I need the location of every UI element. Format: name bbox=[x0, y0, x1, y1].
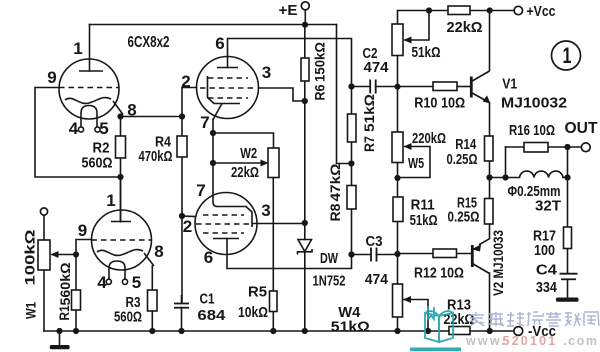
wire 51k pot bottom to C2 node bbox=[397, 56, 399, 87]
svg-text:DW: DW bbox=[320, 251, 338, 267]
wire mid tube pin7 cathode down to lower tube pin7 bbox=[212, 120, 214, 193]
wire top right rail bbox=[398, 10, 448, 12]
node C1 rail junction bbox=[178, 328, 184, 334]
tube V-left-top heater bbox=[81, 106, 97, 127]
wire R6 top lead bbox=[304, 25, 306, 58]
tube V-left-bottom cathode bbox=[97, 250, 143, 256]
wire 51k pot wiper up to rail bbox=[405, 11, 429, 41]
tube V-left-top triode envelope bbox=[59, 59, 119, 119]
tube V-mid-top cathode bbox=[208, 76, 241, 104]
svg-text:474: 474 bbox=[364, 60, 389, 76]
svg-text:6: 6 bbox=[215, 34, 224, 53]
tube V-left-top cathode bbox=[65, 98, 111, 104]
resistor R5 10k bbox=[270, 291, 278, 312]
node C3 right junction bbox=[394, 251, 400, 257]
page marker circled 1 bbox=[552, 41, 581, 70]
wire ground symbol stub bbox=[59, 331, 61, 345]
svg-text:22kΩ: 22kΩ bbox=[447, 19, 483, 36]
svg-text:R10 10Ω: R10 10Ω bbox=[414, 96, 465, 112]
tube V-left-bottom triode envelope bbox=[92, 210, 152, 270]
wire ground rail right section to -Vcc bbox=[470, 330, 514, 332]
svg-text:.com: .com bbox=[563, 334, 599, 348]
svg-text:OUT: OUT bbox=[565, 120, 598, 137]
resistor R14 0.25 ohm bbox=[485, 136, 494, 161]
ground symbol left bbox=[50, 345, 70, 349]
resistor R11 51k bbox=[393, 197, 403, 222]
watermark book logo bbox=[425, 306, 453, 342]
wire mid tube pin2 grid down to R4 bbox=[182, 88, 197, 137]
resistor R4 470k bbox=[177, 136, 187, 157]
svg-text:W5: W5 bbox=[408, 156, 424, 172]
svg-text:R16 10Ω: R16 10Ω bbox=[509, 123, 555, 139]
svg-text:32T: 32T bbox=[535, 199, 561, 215]
svg-text:520101: 520101 bbox=[503, 334, 558, 348]
svg-text:9: 9 bbox=[78, 221, 87, 240]
wire W1 bottom to ground rail bbox=[43, 270, 45, 331]
node +E junction bbox=[302, 22, 308, 28]
svg-text:684: 684 bbox=[197, 308, 225, 324]
resistor R16 10 ohm bbox=[524, 143, 548, 153]
node lower pentode plate junction bbox=[302, 220, 308, 226]
wire R14 bottom to output node bbox=[489, 161, 491, 178]
svg-text:R5: R5 bbox=[248, 285, 267, 301]
wire +E terminal lead bbox=[304, 10, 306, 26]
svg-text:0.25Ω: 0.25Ω bbox=[448, 210, 480, 226]
svg-text:3: 3 bbox=[262, 63, 271, 82]
ground symbol right C4 bbox=[556, 298, 579, 302]
svg-text:R6: R6 bbox=[312, 84, 328, 100]
svg-text:560kΩ: 560kΩ bbox=[57, 263, 73, 306]
wire C3 node down to W4 bbox=[397, 255, 399, 285]
resistor R8 47k bbox=[347, 186, 356, 210]
svg-text:470kΩ: 470kΩ bbox=[139, 149, 173, 165]
svg-text:R7: R7 bbox=[361, 136, 377, 152]
wire R8 leads bbox=[351, 209, 353, 255]
svg-text:MJ10032: MJ10032 bbox=[501, 96, 567, 112]
svg-text:2: 2 bbox=[181, 72, 190, 91]
capacitor C3 474 bbox=[371, 248, 377, 262]
wire SRPP node down to lower tube plate bbox=[120, 177, 122, 222]
watermark underline bar bbox=[410, 348, 461, 352]
wire cathode pin8 to R2 bbox=[120, 115, 122, 136]
node R16 branch junction bbox=[502, 174, 508, 180]
node W4 bottom rail junction bbox=[394, 328, 400, 334]
wire W2 top connection bbox=[213, 133, 274, 148]
resistor R15 0.25 ohm bbox=[485, 199, 494, 225]
wire DW zener bottom to rail bbox=[304, 252, 306, 331]
node V1 collector rail junction bbox=[487, 7, 493, 13]
svg-text:22kΩ: 22kΩ bbox=[231, 165, 259, 181]
tube V-left-top grid dashed bbox=[59, 87, 119, 89]
terminal +Vcc bbox=[514, 6, 522, 14]
wire coil right node column down to R17 bbox=[567, 147, 569, 227]
node C2 right junction bbox=[394, 84, 400, 90]
svg-text:0.25Ω: 0.25Ω bbox=[447, 152, 478, 168]
svg-text:474: 474 bbox=[365, 272, 388, 288]
svg-text:51kΩ: 51kΩ bbox=[412, 44, 441, 61]
tube V-mid-bottom grid1 dashed bbox=[203, 214, 244, 216]
wire lower-left tube plate bar lead bbox=[120, 177, 122, 222]
svg-text:+E: +E bbox=[279, 2, 298, 19]
tube V-mid-top plate bar bbox=[217, 67, 238, 69]
wire 220k bottom to R11 bbox=[397, 163, 399, 198]
node R4 top junction bbox=[179, 113, 185, 119]
tube V-mid-bottom grid2 dashed bbox=[196, 223, 250, 225]
tube V-left-top plate bar bbox=[79, 70, 103, 72]
wire V1 emitter to R14 bbox=[489, 103, 491, 136]
potentiometer 51k top body bbox=[392, 24, 403, 56]
svg-text:3: 3 bbox=[261, 201, 270, 220]
svg-text:W2: W2 bbox=[240, 146, 257, 162]
resistor R3 560 ohm bbox=[148, 290, 158, 311]
svg-text:51kΩ: 51kΩ bbox=[361, 94, 377, 132]
wire C1 bottom to ground rail bbox=[181, 308, 183, 332]
wire lower tube pin8 cathode to R3 bbox=[151, 266, 153, 290]
svg-text:560Ω: 560Ω bbox=[114, 310, 142, 326]
wire R4 bottom to lower grid node bbox=[181, 157, 183, 216]
wire plate lead left tube pin1 bbox=[89, 25, 91, 72]
svg-text:R12 10Ω: R12 10Ω bbox=[414, 266, 464, 282]
node W2 top junction bbox=[210, 130, 216, 136]
node R16 OUT junction bbox=[564, 144, 570, 150]
wire R17 to C4 bbox=[567, 249, 569, 274]
node output R14 junction bbox=[486, 174, 492, 180]
svg-text:1N752: 1N752 bbox=[313, 274, 346, 290]
wire W4 bottom to rail bbox=[397, 317, 399, 331]
svg-text:V2 MJ10033: V2 MJ10033 bbox=[490, 230, 506, 296]
svg-text:5: 5 bbox=[99, 119, 108, 138]
wire R7 leads bbox=[351, 142, 353, 164]
node 51k wiper rail junction bbox=[426, 7, 432, 13]
wire R12 line to V2 base bbox=[398, 253, 434, 255]
wire ground rail left section bbox=[44, 330, 449, 332]
svg-text:6: 6 bbox=[204, 248, 213, 267]
svg-text:+Vcc: +Vcc bbox=[527, 4, 556, 20]
node ground stub junction bbox=[56, 328, 62, 334]
svg-text:560Ω: 560Ω bbox=[82, 156, 113, 172]
resistor R7 51k bbox=[348, 114, 357, 142]
node V2 collector rail junction bbox=[487, 328, 493, 334]
arrow V1 emitter bbox=[483, 96, 491, 104]
resistor R13 22k on rail bbox=[449, 327, 470, 335]
wire 51k pot top lead bbox=[397, 11, 399, 25]
potentiometer W2 22k body bbox=[268, 148, 279, 178]
wire C2 left lead bbox=[352, 86, 371, 88]
wire lower tube pin2 grid stub bbox=[182, 215, 196, 218]
inductor coil 0.25mm 32T bbox=[520, 171, 564, 177]
node pin8 cathode junction bbox=[117, 113, 123, 119]
resistor R12 10 ohm bbox=[433, 249, 457, 258]
resistor R6 150k bbox=[301, 58, 309, 81]
svg-text:7: 7 bbox=[200, 113, 209, 132]
svg-text:1: 1 bbox=[106, 191, 115, 210]
tube V-left-top cathode slash to pin8 bbox=[113, 101, 123, 115]
node W5 bottom junction bbox=[394, 175, 400, 181]
svg-text:4: 4 bbox=[69, 119, 79, 138]
svg-text:150kΩ: 150kΩ bbox=[312, 42, 328, 82]
wire W2 wiper line bbox=[213, 162, 266, 164]
wire W4 wiper to rail bbox=[404, 300, 428, 332]
svg-text:51kΩ: 51kΩ bbox=[331, 320, 370, 336]
wire mid tube pin6 plate lead bbox=[227, 39, 229, 68]
tube V-mid-bottom pentode envelope bbox=[195, 193, 257, 255]
svg-text:V1: V1 bbox=[502, 77, 517, 93]
svg-text:8: 8 bbox=[154, 242, 163, 261]
tube V-left-bottom heater bbox=[109, 261, 125, 279]
tube V-mid-top cathode lead to pin7 bbox=[213, 104, 222, 120]
terminal W1 input bbox=[40, 208, 47, 215]
resistor 22k top rail bbox=[448, 6, 470, 15]
wire R15 bottom to V2 emitter bbox=[489, 224, 491, 239]
resistor R17 100 bbox=[564, 227, 572, 249]
tube V-left-bottom plate bar bbox=[111, 221, 131, 223]
arrow W5 wiper bbox=[404, 143, 412, 150]
wire R1 leads bbox=[75, 255, 77, 291]
wire R10 line from node to V1 base bbox=[398, 86, 434, 88]
wire C3 left lead bbox=[352, 254, 372, 256]
wire pin8 node to R4 top node bbox=[121, 116, 183, 118]
tube V-mid-top grid1 dashed bbox=[208, 77, 248, 79]
wire R16 right to OUT bbox=[548, 146, 581, 148]
svg-text:8: 8 bbox=[127, 101, 136, 120]
wire lower-left tube pin9 grid bbox=[76, 240, 92, 255]
wire C2 node to 220k pot bbox=[397, 87, 399, 133]
wire W5 wiper loop bbox=[398, 147, 431, 178]
wire second rail tube pin6 to C2 node bbox=[228, 39, 352, 87]
potentiometer W4 51k body bbox=[393, 284, 403, 317]
node W1 wiper R1 junction bbox=[73, 251, 79, 257]
node C3 left junction bbox=[348, 251, 354, 257]
resistor R2 560 ohm bbox=[116, 136, 126, 158]
node SRPP junction bbox=[117, 174, 123, 180]
wire output node to R15 top bbox=[489, 178, 491, 199]
svg-text:C3: C3 bbox=[366, 234, 383, 250]
arrow W4 wiper bbox=[403, 296, 411, 303]
wire DW zener top lead bbox=[304, 223, 306, 240]
wire R11 bottom to C3 node bbox=[397, 222, 399, 255]
wire pin9 grid left tube L-shape to SRPP node bbox=[35, 88, 121, 178]
wire R2 bottom to SRPP node bbox=[120, 158, 122, 177]
svg-text:R1: R1 bbox=[56, 305, 72, 320]
tube V-mid-top grid2 dashed bbox=[200, 87, 255, 89]
wire R6 bottom to plate node lower pentode bbox=[304, 81, 306, 223]
node DW rail junction bbox=[302, 328, 308, 334]
tube V-left-bottom grid dashed bbox=[92, 239, 153, 241]
wire lower pentode pin6 screen L to C3 node bbox=[227, 239, 352, 269]
terminal -Vcc bbox=[514, 327, 523, 336]
capacitor C4 334 bbox=[560, 274, 578, 280]
svg-text:www.: www. bbox=[465, 334, 507, 348]
wire V2 collector to rail bbox=[489, 273, 491, 331]
tube V-left-bottom heater pin5 bbox=[122, 279, 127, 284]
arrow 51k top wiper bbox=[404, 37, 412, 44]
svg-text:5: 5 bbox=[132, 273, 141, 292]
tube V-mid-bottom cathode top bbox=[213, 193, 252, 228]
tube V-mid-bottom pin3 line bbox=[252, 223, 305, 225]
wire W1 wiper to R1 top node bbox=[52, 254, 76, 256]
node R7 R8 tap junction bbox=[348, 160, 354, 166]
arrow W2 wiper bbox=[261, 160, 269, 167]
resistor R1 560k bbox=[72, 290, 81, 310]
tube V-left-bottom cathode slash to pin8 bbox=[144, 253, 154, 266]
svg-text:10kΩ: 10kΩ bbox=[238, 305, 268, 321]
terminal +E bbox=[301, 2, 309, 10]
svg-text:47kΩ: 47kΩ bbox=[327, 164, 343, 202]
watermark url line bbox=[465, 334, 599, 348]
node R1 rail junction bbox=[73, 328, 79, 334]
svg-text:7: 7 bbox=[196, 181, 205, 200]
wire C2 right lead bbox=[376, 86, 398, 88]
tube V-left-top heater pin5 bbox=[95, 127, 100, 132]
watermark chinese characters bbox=[468, 312, 599, 326]
tube V-mid-bottom plate bar bbox=[213, 238, 239, 240]
node W4 wiper rail junction bbox=[425, 328, 431, 334]
svg-text:4: 4 bbox=[97, 273, 107, 292]
resistor R10 10 ohm bbox=[433, 82, 457, 91]
node coil right junction bbox=[564, 174, 570, 180]
svg-text:6CX8x2: 6CX8x2 bbox=[128, 34, 170, 51]
svg-text:100kΩ: 100kΩ bbox=[23, 229, 38, 285]
svg-text:C1: C1 bbox=[200, 292, 215, 308]
wire C3 right lead to R11 node bbox=[377, 254, 398, 256]
wire +E rail branch down to R7/R8 tap bbox=[337, 25, 352, 164]
tube V-mid-bottom grid3 dashed bbox=[203, 232, 244, 234]
wire R16 branch up from output node bbox=[505, 147, 507, 178]
svg-text:100: 100 bbox=[534, 243, 555, 259]
potentiometer W5 220k body bbox=[392, 132, 403, 163]
potentiometer W1 100k body bbox=[38, 240, 50, 270]
transistor V2 MJ10033 bbox=[472, 239, 489, 274]
node R3 rail junction bbox=[149, 328, 155, 334]
wire mid tube pin3 to R6 bottom node bbox=[259, 88, 305, 101]
wire V1 collector to +Vcc rail bbox=[489, 11, 491, 71]
tube V-left-bottom heater pin4 bbox=[106, 279, 111, 284]
terminal OUT bbox=[581, 143, 590, 152]
svg-text:1: 1 bbox=[563, 43, 572, 68]
wire +E top rail to tube V1a plate bbox=[90, 24, 337, 26]
svg-text:R14: R14 bbox=[455, 137, 476, 153]
svg-text:334: 334 bbox=[536, 280, 557, 296]
wire W1 terminal lead bbox=[43, 215, 45, 240]
wire W2 bottom down to R5 bbox=[272, 178, 274, 292]
svg-text:220kΩ: 220kΩ bbox=[412, 131, 446, 147]
svg-text:9: 9 bbox=[47, 68, 56, 87]
svg-text:1: 1 bbox=[73, 39, 82, 58]
svg-text:51kΩ: 51kΩ bbox=[410, 213, 438, 229]
node R6 pin3 junction bbox=[302, 98, 308, 104]
wire C4 to ground bar bbox=[567, 280, 569, 298]
arrow V2 emitter pnp bbox=[472, 245, 482, 252]
svg-text:C4: C4 bbox=[536, 263, 557, 279]
wire output line with coil taps bbox=[490, 177, 520, 179]
wire R5 bottom to ground rail bbox=[272, 312, 274, 332]
svg-text:2: 2 bbox=[183, 217, 192, 236]
wire R3 bottom to rail bbox=[151, 311, 153, 331]
node W2 wiper junction bbox=[210, 160, 216, 166]
tube V-left-top heater pin4 bbox=[78, 127, 83, 132]
arrow W1 wiper bbox=[51, 251, 59, 258]
tube V-mid-top grid3 dashed bbox=[208, 97, 248, 99]
capacitor C2 474 bbox=[370, 80, 376, 94]
node C2 left junction bbox=[348, 83, 354, 89]
tube V-mid-top pentode envelope bbox=[197, 57, 259, 119]
wire lower grid node to C1 bbox=[181, 216, 183, 303]
svg-text:W1: W1 bbox=[23, 302, 39, 319]
svg-text:R8: R8 bbox=[327, 203, 343, 221]
node R5 rail junction bbox=[270, 328, 276, 334]
svg-text:R2: R2 bbox=[93, 141, 110, 157]
capacitor C1 684 bbox=[174, 295, 189, 308]
svg-text:R11: R11 bbox=[411, 198, 435, 214]
transistor V1 MJ10032 bbox=[471, 71, 489, 102]
zener diode DW 1N752 bbox=[298, 240, 313, 255]
node lower grid junction bbox=[179, 213, 185, 219]
